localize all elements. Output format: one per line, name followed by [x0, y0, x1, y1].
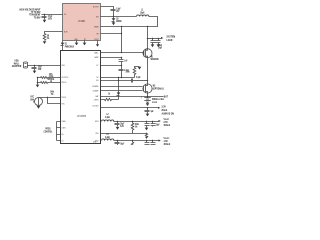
diode D3 charge LED — [108, 77, 120, 100]
svg-text:PMEG6010: PMEG6010 — [65, 46, 75, 48]
svg-text:LTC3555: LTC3555 — [77, 113, 86, 118]
wire pin 80 with series cap — [101, 77, 149, 82]
ground prog resistors — [36, 85, 40, 88]
ground pink GND pin — [75, 41, 79, 46]
ground R2 — [138, 67, 142, 70]
transistor M2 optional PMOS — [143, 84, 164, 94]
capacitor C11 buck2 — [115, 141, 125, 146]
node USB input label — [12, 59, 22, 68]
wire buck1 output — [114, 121, 159, 123]
ground C10 — [145, 128, 149, 131]
wire pin 77 — [101, 77, 135, 79]
node VOUT1 label — [164, 118, 171, 127]
svg-text:PROG: PROG — [62, 82, 67, 84]
svg-text:D0: D0 — [62, 134, 64, 136]
svg-text:CONTROL: CONTROL — [44, 131, 53, 133]
wire M2 gate upper — [101, 86, 143, 88]
ground C8 — [33, 71, 37, 74]
svg-text:LDO3V3: LDO3V3 — [92, 105, 98, 107]
wire prog common — [37, 78, 39, 85]
svg-text:10µF: 10µF — [158, 47, 163, 49]
node NTC junction — [47, 97, 48, 98]
capacitor C4 vout — [156, 38, 163, 50]
svg-text:BAT: BAT — [164, 95, 169, 98]
capacitor C10 fb1 — [145, 121, 150, 128]
svg-text:400mA: 400mA — [164, 124, 171, 127]
svg-text:ADAPTER: ADAPTER — [12, 65, 22, 68]
svg-text:25V: 25V — [116, 11, 120, 13]
wire VIN input — [42, 14, 63, 16]
svg-text:2.2µH: 2.2µH — [105, 137, 110, 139]
capacitor C13 fb1b — [151, 121, 161, 127]
svg-text:ILIM1: ILIM1 — [62, 127, 66, 129]
svg-text:LOAD: LOAD — [167, 39, 173, 42]
svg-text:1%: 1% — [47, 38, 50, 40]
node HV input label — [19, 8, 41, 20]
node mid caps tap — [121, 65, 122, 66]
node buck1 cap tap — [117, 121, 118, 122]
wire PROG — [38, 82, 61, 84]
svg-text:B360A: B360A — [116, 20, 122, 23]
wire SW — [101, 16, 137, 18]
inductor L3 buck2 — [102, 134, 114, 141]
svg-text:OVGATE: OVGATE — [92, 85, 99, 88]
ground pink PG pin — [96, 41, 99, 47]
svg-text:LT3480: LT3480 — [78, 20, 85, 23]
svg-text:NTCB: NTCB — [62, 97, 67, 99]
svg-text:6.3V: 6.3V — [120, 126, 124, 128]
capacitor C5 comp — [119, 57, 129, 70]
wire control bus bracket — [44, 122, 61, 141]
svg-text:WALL: WALL — [94, 51, 98, 54]
wire buck output loop — [101, 17, 158, 27]
wire LDO3V3 — [101, 107, 159, 109]
diode D2 catch — [112, 17, 123, 24]
node VOUT rail tap — [147, 26, 148, 27]
wire BOOST — [101, 7, 114, 10]
svg-text:NTC: NTC — [62, 103, 66, 105]
capacitor C2 boost — [111, 8, 122, 16]
resistor R5 prog — [41, 82, 48, 84]
thermistor RT1 NTC — [30, 96, 42, 105]
wire RUN pin — [45, 32, 63, 34]
wire buck2 output — [114, 140, 159, 142]
svg-text:(OPTIONAL): (OPTIONAL) — [153, 87, 164, 90]
inductor L1 — [137, 9, 149, 16]
capacitor C9 buck1 — [115, 122, 125, 129]
wire FB — [101, 33, 122, 35]
resistor R9 fb2 — [131, 140, 134, 146]
ground battery — [146, 103, 150, 106]
resistor R3 chrg — [101, 98, 119, 100]
wire VC pin — [101, 57, 122, 59]
capacitor C1 input — [42, 15, 53, 21]
svg-text:FB1: FB1 — [96, 133, 99, 135]
svg-text:100V: 100V — [48, 18, 53, 20]
ground R1 — [43, 41, 47, 44]
resistor R7 fb1 top — [131, 121, 139, 134]
node SYSTEM LOAD label — [167, 35, 176, 42]
wire NTC bias — [39, 97, 61, 99]
svg-text:10µF: 10µF — [120, 143, 125, 145]
ground C4 — [157, 44, 161, 47]
svg-text:1%: 1% — [51, 94, 54, 96]
diode D1 BD to VBUS — [61, 41, 75, 51]
node BAT junction — [147, 96, 148, 97]
wire system load — [148, 38, 162, 40]
wire CLPROG — [38, 77, 61, 79]
svg-text:TO 80V: TO 80V — [34, 16, 41, 19]
node ldo cap tap — [147, 107, 148, 108]
svg-text:VIN: VIN — [64, 14, 66, 16]
svg-text:VBUS: VBUS — [62, 65, 65, 67]
svg-text:3.01k: 3.01k — [49, 76, 54, 78]
ground C3 — [151, 44, 155, 47]
resistor R8 fb1 bottom — [145, 134, 148, 139]
capacitor C12 fb2 — [145, 140, 150, 145]
node LDO output label — [162, 105, 175, 115]
svg-text:2.2µH: 2.2µH — [105, 117, 110, 119]
svg-text:SW1: SW1 — [95, 121, 98, 123]
svg-text:X5R: X5R — [38, 69, 42, 71]
node VOUT2 label — [164, 137, 171, 146]
svg-text:D1: D1 — [62, 140, 64, 142]
svg-text:22pF: 22pF — [156, 124, 161, 126]
wire VOUT rail mid — [147, 58, 149, 84]
capacitor C3 vout — [151, 39, 163, 48]
svg-text:CLPROG: CLPROG — [62, 77, 69, 79]
svg-text:IDGATE: IDGATE — [93, 89, 99, 92]
IC U1 high-voltage buck regulator (pink block) — [63, 4, 101, 42]
node C3 tap — [152, 38, 153, 39]
ground input cap — [43, 20, 47, 23]
battery BT1 — [141, 97, 165, 105]
node FB tap — [121, 26, 122, 27]
wire WALL sense riser — [121, 27, 123, 53]
wire NTC sense — [48, 98, 61, 104]
node buck2 cap tap — [117, 140, 118, 141]
wire M2 gate lower — [101, 90, 143, 92]
svg-text:Si2333DS: Si2333DS — [151, 59, 160, 61]
node VBUS junction — [34, 65, 35, 66]
node VIN junction — [44, 14, 45, 15]
node SW junction — [113, 16, 114, 17]
svg-text:SW: SW — [96, 16, 99, 18]
ground pink RT pin — [83, 41, 87, 46]
ground C9 — [116, 127, 120, 130]
wire FB1 — [101, 133, 147, 135]
svg-text:ALWAYS ON: ALWAYS ON — [162, 112, 175, 115]
svg-text:BOOST: BOOST — [93, 6, 99, 8]
svg-text:Li-Ion: Li-Ion — [152, 102, 158, 104]
wire pin 65 — [101, 65, 122, 67]
capacitor C6 comp — [119, 70, 130, 78]
svg-text:GND: GND — [93, 141, 97, 143]
wire VOUT rail upper — [147, 27, 149, 49]
ground C7 — [146, 114, 150, 117]
svg-text:400mA: 400mA — [164, 143, 171, 145]
svg-text:RUN: RUN — [64, 31, 68, 33]
ground D2 — [112, 22, 116, 25]
node USB connector — [24, 62, 28, 68]
wire VBUS — [28, 65, 61, 67]
svg-text:CHRG: CHRG — [94, 99, 99, 101]
resistor R1 run divider — [43, 34, 49, 41]
svg-text:ILIM0: ILIM0 — [62, 121, 66, 123]
svg-text:VBIAS: VBIAS — [94, 25, 99, 28]
node gate chain tap — [121, 52, 122, 53]
capacitor C8 vbus — [32, 66, 43, 71]
transistor M1 ideal diode PMOS — [143, 49, 159, 62]
svg-text:0.1µF: 0.1µF — [136, 77, 141, 79]
capacitor C14 fb2b — [151, 140, 156, 145]
svg-text:10µH: 10µH — [140, 12, 145, 14]
svg-text:SYNC: SYNC — [94, 39, 99, 41]
resistor R4 clprog — [41, 77, 48, 79]
svg-text:GATE: GATE — [94, 56, 99, 59]
svg-text:1%: 1% — [135, 126, 138, 128]
resistor R2 comp — [126, 67, 140, 78]
wire M1 gate — [101, 52, 144, 54]
capacitor C7 ldo — [145, 108, 155, 114]
ground NTC — [37, 106, 41, 109]
svg-text:100k: 100k — [126, 71, 131, 73]
inductor L2 buck1 — [102, 114, 114, 121]
wire BAT — [101, 96, 164, 98]
node system load tap — [147, 38, 148, 39]
node chain bottom — [121, 77, 122, 78]
IC U2 power manager (white block) — [61, 51, 101, 144]
